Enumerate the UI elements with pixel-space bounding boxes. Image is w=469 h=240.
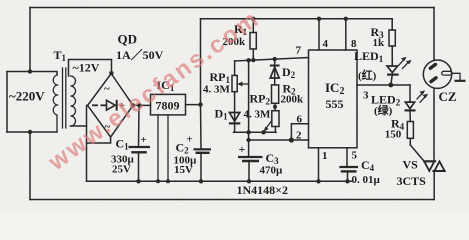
LED2 diode bbox=[405, 90, 429, 121]
node junction vertical upper bbox=[246, 130, 250, 134]
wire R2 to RP2 bbox=[274, 103, 276, 110]
socket CZ circle bbox=[423, 60, 451, 88]
capacitor C4 bbox=[339, 167, 358, 181]
node junction mains bottom bbox=[28, 130, 32, 134]
wire CZ neutral tab bbox=[452, 73, 460, 80]
node junction R2 RP2 bbox=[273, 105, 277, 109]
transformer T1 core bbox=[63, 68, 66, 128]
node junction R1 top bbox=[251, 17, 255, 21]
op-amp IC2 555 box bbox=[309, 50, 358, 148]
wire 9V rail bbox=[201, 18, 393, 20]
potentiometer RP2 bbox=[264, 111, 280, 133]
wire IC1 ground pin b bbox=[167, 115, 169, 181]
capacitor C2 bbox=[194, 105, 212, 182]
ground CZ tab bar bbox=[455, 80, 466, 82]
potentiometer RP1 bbox=[232, 61, 249, 92]
node junction mains top bbox=[28, 69, 32, 73]
wire bridge bottom vertex stub bbox=[87, 137, 111, 143]
node junction C1 top bbox=[137, 103, 141, 107]
wire ground rail bbox=[87, 180, 353, 182]
node junction pin2 riser bbox=[289, 137, 294, 142]
socket CZ slot bottom-left bbox=[429, 75, 439, 84]
node junction IC1 gnd a bbox=[156, 179, 160, 183]
LED1 diode bbox=[387, 46, 412, 85]
wire left frame lower bbox=[29, 132, 31, 200]
bridge rectifier QD diamond bbox=[88, 74, 133, 138]
node junction C1 ground bbox=[136, 179, 140, 183]
wire IC1 output bbox=[186, 104, 201, 106]
wire pin5 bbox=[346, 148, 348, 167]
wire pin3 bbox=[357, 84, 410, 86]
resistor R2 bbox=[272, 85, 279, 103]
op-amp IC1 7809 regulator box bbox=[151, 94, 186, 115]
resistor R1 bbox=[250, 19, 256, 60]
capacitor C3 bbox=[238, 140, 263, 181]
wire pin7 node line bbox=[235, 58, 309, 62]
wire 9V riser bbox=[200, 19, 202, 105]
transformer T1 primary winding bbox=[53, 75, 57, 132]
wire lower node line pin2 bbox=[249, 139, 309, 141]
wire top rail 220V bbox=[30, 7, 434, 9]
socket CZ slot right bbox=[442, 71, 452, 75]
wire gate diagonal bbox=[410, 145, 424, 161]
wire bridge minus drop to ground rail bbox=[86, 105, 88, 181]
watermark bbox=[43, 5, 265, 177]
wire bottom rail bbox=[30, 199, 434, 201]
wire bridge plus output to IC1 bbox=[133, 104, 151, 106]
transformer T1 secondary winding bbox=[71, 76, 76, 126]
capacitor C1 bbox=[129, 105, 151, 181]
node junction LED1 cathode bbox=[388, 83, 393, 88]
socket CZ slot top-left bbox=[428, 62, 438, 71]
wire IC1 ground pin a bbox=[157, 115, 159, 181]
wire mains input bbox=[6, 72, 8, 133]
node junction pin1 ground bbox=[316, 179, 320, 183]
node junction IC1 gnd b bbox=[166, 179, 170, 183]
wire pin8 bbox=[345, 19, 347, 50]
node junction wiper bbox=[246, 58, 250, 62]
node junction R1 bottom bbox=[251, 58, 255, 62]
wire pin3 node drop to LED2 bbox=[409, 85, 411, 102]
wire pin4 bbox=[318, 19, 320, 50]
node junction D2 top bbox=[273, 57, 277, 61]
node junction C4 ground bbox=[345, 179, 349, 183]
wire pin6 riser bbox=[291, 124, 308, 140]
resistor R4 bbox=[407, 122, 413, 146]
diode D2 bbox=[270, 59, 280, 85]
triac VS bbox=[423, 89, 445, 200]
node junction pin8 top bbox=[344, 17, 348, 21]
wire left frame upper bbox=[29, 8, 31, 72]
node junction bridge top bbox=[109, 71, 113, 75]
wire right drop to socket bbox=[433, 8, 435, 61]
node junction IC1 output bbox=[198, 102, 202, 106]
node junction pin4 top bbox=[317, 17, 321, 21]
wire upper node line bbox=[234, 131, 277, 133]
diode D1 bbox=[229, 92, 240, 133]
wire pin1 bbox=[318, 148, 320, 182]
node junction bridge right vertex bbox=[131, 103, 135, 107]
node junction C3 ground bbox=[247, 179, 251, 183]
wire mains bottom lead bbox=[7, 131, 57, 133]
wire R1 continuation down bbox=[248, 60, 250, 140]
resistor R3 bbox=[389, 19, 395, 46]
wire secondary top to bridge bbox=[69, 60, 112, 77]
node junction RP2 wiper bbox=[261, 130, 265, 134]
wire mains top lead bbox=[7, 72, 57, 76]
wire secondary bottom lead bbox=[71, 125, 87, 127]
bridge diode inside bbox=[92, 100, 117, 111]
node junction C2 ground bbox=[199, 179, 203, 183]
node junction lower vertical bbox=[246, 138, 250, 142]
